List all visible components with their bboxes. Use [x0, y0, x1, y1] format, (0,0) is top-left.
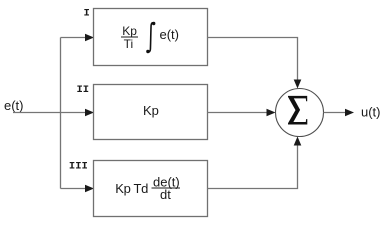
wire branch vertical — [60, 38, 62, 189]
arrowhead right into summing junction — [267, 109, 276, 117]
svg-text:e(t): e(t) — [160, 27, 180, 42]
svg-text:I: I — [84, 8, 90, 20]
wire block III output to summing junction — [207, 144, 298, 189]
svg-text:e(t): e(t) — [4, 98, 24, 113]
svg-text:Kp: Kp — [143, 103, 159, 118]
sigma symbol — [288, 96, 307, 125]
svg-text:II: II — [77, 84, 90, 96]
wire output from summing junction — [324, 112, 347, 114]
svg-text:Kp Td: Kp Td — [115, 181, 148, 196]
svg-text:III: III — [69, 160, 88, 172]
svg-text:dt: dt — [160, 187, 171, 202]
block III (derivative) — [94, 161, 208, 217]
svg-text:Ti: Ti — [124, 37, 134, 51]
wire branch to block III — [61, 188, 87, 190]
arrowhead down into summing junction — [294, 80, 302, 89]
arrowhead into block III — [85, 185, 94, 193]
block II (proportional) — [94, 85, 208, 140]
block I (integral) — [94, 9, 208, 66]
wire block I output to summing junction — [207, 38, 298, 82]
arrowhead output — [345, 109, 354, 117]
wire branch to block I — [61, 37, 87, 39]
summing junction circle — [276, 89, 324, 137]
arrowhead into block I — [85, 34, 94, 42]
wire input horizontal e(t) to block II — [13, 112, 87, 114]
svg-text:u(t): u(t) — [361, 104, 381, 119]
wire block II output to summing junction — [207, 112, 268, 114]
arrowhead up into summing junction — [294, 137, 302, 146]
integral sign — [148, 23, 154, 52]
arrowhead into block II — [85, 109, 94, 117]
